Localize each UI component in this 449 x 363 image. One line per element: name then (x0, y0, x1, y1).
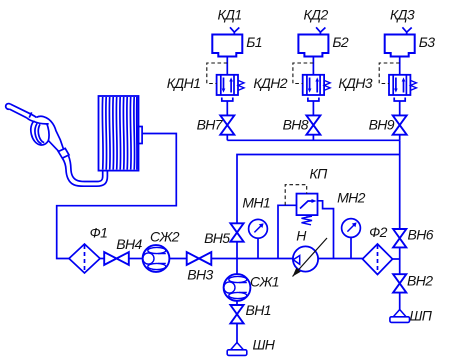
svg-text:Б3: Б3 (419, 34, 436, 50)
svg-text:СЖ1: СЖ1 (250, 274, 279, 290)
svg-text:ВН6: ВН6 (408, 227, 434, 243)
svg-text:ВН9: ВН9 (369, 117, 395, 133)
svg-text:ВН8: ВН8 (283, 117, 309, 133)
svg-text:ШП: ШП (410, 308, 433, 324)
svg-text:ВН1: ВН1 (246, 302, 271, 318)
svg-text:СЖ2: СЖ2 (150, 228, 180, 244)
svg-text:Н: Н (296, 228, 307, 244)
svg-text:КП: КП (310, 166, 329, 182)
svg-text:ВН4: ВН4 (116, 236, 142, 252)
svg-text:ВН7: ВН7 (197, 117, 224, 133)
svg-text:КДН3: КДН3 (338, 75, 372, 91)
svg-text:КДН2: КДН2 (253, 75, 287, 91)
svg-text:МН2: МН2 (337, 190, 366, 206)
svg-text:Ф1: Ф1 (90, 225, 108, 241)
svg-text:КД2: КД2 (304, 6, 329, 22)
svg-text:ВН3: ВН3 (187, 267, 213, 283)
svg-text:ШН: ШН (253, 337, 276, 353)
svg-text:Б2: Б2 (332, 34, 349, 50)
svg-text:Ф2: Ф2 (369, 224, 388, 240)
svg-text:КД1: КД1 (217, 6, 241, 22)
svg-text:КДН1: КДН1 (167, 75, 201, 91)
svg-text:ВН2: ВН2 (407, 273, 433, 289)
svg-text:КД3: КД3 (390, 6, 415, 22)
svg-text:Б1: Б1 (246, 34, 262, 50)
svg-text:МН1: МН1 (242, 194, 270, 210)
svg-text:ВН5: ВН5 (204, 230, 230, 246)
